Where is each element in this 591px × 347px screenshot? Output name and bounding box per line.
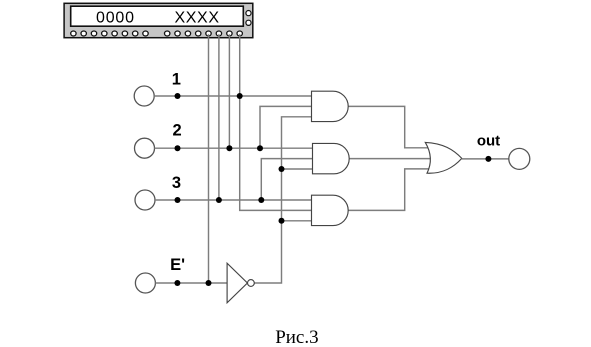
- wire: AND1 output to OR input 1: [348, 106, 429, 147]
- wire: device pin to input-2 row (vertical V3): [228, 34, 230, 148]
- svg-text:Рис.3: Рис.3: [275, 327, 318, 347]
- junction dot: E net / AND2 C: [279, 166, 285, 172]
- wire: AND2 output to OR input 2: [349, 158, 430, 160]
- junction dot: E net / AND3 C: [279, 218, 285, 224]
- wire: input2 branch up to AND1 input B: [260, 106, 312, 148]
- AND gate 3: [312, 195, 349, 225]
- svg-text:1: 1: [172, 70, 181, 88]
- output terminal: [509, 148, 530, 169]
- wire: NOT output up to AND1 input C (E net): [254, 117, 311, 283]
- wire: device pin to input-3 row (vertical V2): [218, 34, 220, 200]
- junction dot: input1 stub: [175, 93, 181, 99]
- wire: OR output to out terminal: [462, 158, 509, 160]
- input terminal 2: [135, 138, 155, 158]
- svg-text:XXXX: XXXX: [175, 10, 220, 27]
- wire: E' row: [155, 282, 227, 284]
- junction dot: input3 / V2: [216, 197, 222, 203]
- junction dot: input3 / branch to AND2: [258, 197, 264, 203]
- svg-text:out: out: [477, 133, 500, 150]
- junction dot: out stub: [485, 156, 491, 162]
- svg-text:E': E': [170, 256, 185, 274]
- junction dot: E' / V1: [206, 280, 212, 286]
- svg-text:3: 3: [172, 174, 181, 192]
- wire: input3 branch up to AND2 input B: [261, 159, 312, 200]
- wire: AND3 output to OR input 3: [348, 169, 429, 211]
- display unit U1 body: [64, 3, 253, 37]
- svg-text:2: 2: [173, 122, 182, 140]
- indicator circle top: [246, 11, 251, 16]
- input terminal E': [135, 273, 155, 293]
- wire: E net to AND2 input C: [282, 168, 313, 170]
- AND gate 1: [312, 91, 349, 121]
- junction dot: E' stub: [174, 280, 180, 286]
- AND gate 2: [313, 143, 350, 173]
- svg-text:0000: 0000: [96, 10, 135, 27]
- indicator circle bottom: [246, 20, 251, 25]
- junction dot: input3 stub: [175, 197, 181, 203]
- wire: E net to AND3 input C: [282, 220, 312, 222]
- junction dot: input2 / V3: [226, 145, 232, 151]
- wire: input 1 row: [154, 95, 311, 97]
- inverter U2 (NOT gate): [227, 263, 254, 303]
- junction dot: input2 stub: [175, 145, 181, 151]
- terminal pins row: [71, 31, 243, 36]
- input terminal 1: [134, 86, 154, 106]
- wire: device pin to input-1 row and on to AND3 input B: [240, 34, 312, 210]
- display window: [71, 6, 244, 26]
- wire: input 3 row: [155, 199, 312, 201]
- wire: input 2 row: [155, 147, 313, 149]
- OR gate: [425, 142, 462, 173]
- junction dot: input2 / branch to AND1: [257, 145, 263, 151]
- junction dot: input1 / V4: [237, 93, 243, 99]
- input terminal 3: [135, 190, 155, 210]
- wire: device pin to E' row (vertical V1): [208, 34, 210, 283]
